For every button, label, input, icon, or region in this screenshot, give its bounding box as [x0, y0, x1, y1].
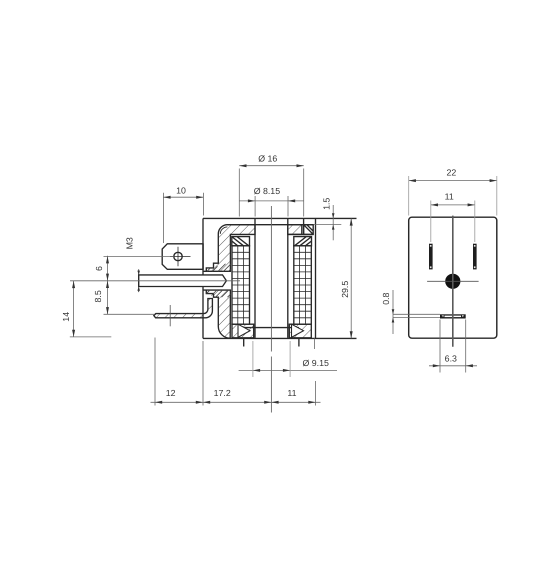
dim line 1.5: [332, 205, 334, 240]
terminal block: [162, 244, 203, 269]
arrows 6: [106, 256, 109, 263]
arrows 29.5: [350, 218, 353, 225]
svg-text:8.5: 8.5: [93, 290, 103, 302]
mounting bracket: [154, 299, 213, 318]
svg-text:14: 14: [61, 312, 71, 322]
dim line D8.15: [239, 200, 303, 202]
pin end cap line: [138, 269, 140, 292]
svg-text:M3: M3: [124, 237, 134, 249]
top washer line: [228, 224, 314, 226]
arrows 11 right view: [431, 203, 438, 206]
arrows bottom chain: [155, 401, 162, 404]
right view body: [409, 217, 497, 338]
tube bottom edge: [244, 327, 299, 329]
plunger tube bore wall left: [254, 218, 256, 338]
dim line 22: [409, 180, 497, 182]
inner corner arc detail: [220, 227, 227, 234]
pin end arrows: [137, 271, 140, 275]
centerline left view: [70, 206, 453, 413]
dim line 14: [73, 281, 75, 337]
bottom stub left: [243, 338, 245, 346]
left overmold wall with top band (hatched): [203, 225, 255, 272]
arrows 0.8: [392, 309, 395, 314]
screw hole M3: [170, 247, 191, 266]
bobbin flange right: [294, 237, 312, 246]
arrows 14: [72, 281, 75, 288]
leader 8.5 bottom: [104, 313, 155, 315]
svg-text:11: 11: [287, 388, 296, 398]
arrows 22: [409, 179, 416, 182]
dim line 11 right view: [431, 204, 475, 206]
dim line 6 and 8.5: [107, 256, 109, 314]
leader M3: [104, 256, 174, 258]
pin centerline: [70, 280, 240, 282]
boss hatch marks: [207, 264, 230, 272]
washer inner step line: [288, 233, 313, 235]
bottom chain dims 12 / 17.2 / 11: [151, 401, 321, 403]
bottom stub right: [298, 338, 300, 346]
right view center pin (filled circle): [445, 274, 460, 289]
winding grid horizontal lines: [232, 252, 311, 317]
arrows D16: [239, 164, 246, 167]
winding window right (grid): [294, 246, 312, 324]
svg-text:11: 11: [445, 191, 454, 201]
centerline right view: [452, 216, 454, 347]
svg-text:6: 6: [94, 266, 104, 271]
right view terminal slot right: [473, 244, 477, 270]
arrows 6.3: [433, 364, 440, 367]
arrows 1.5: [332, 213, 335, 218]
dim 0.8 leaders: [393, 313, 440, 315]
svg-text:Ø 16: Ø 16: [258, 154, 277, 164]
arrows D9.15: [253, 369, 260, 372]
winding window left (grid): [232, 246, 250, 324]
circle horizontal centerline: [427, 280, 479, 282]
svg-text:0.8: 0.8: [381, 292, 391, 304]
cup edge right: [303, 218, 305, 234]
svg-text:Ø 9.15: Ø 9.15: [302, 358, 329, 368]
body edge across terminal block: [202, 244, 204, 269]
dim line 29.5: [350, 218, 352, 338]
arrows D8.15: [248, 199, 255, 202]
arrows 10: [163, 196, 170, 199]
dim line D16: [239, 165, 303, 167]
left overmold wall lower part (hatched): [203, 290, 230, 338]
plunger pin: [139, 275, 227, 287]
bracket hole centerline: [169, 305, 171, 326]
bottom flange right (hatched with fold): [289, 324, 311, 338]
svg-text:Ø 8.15: Ø 8.15: [254, 186, 281, 196]
right view bottom slot: [440, 314, 466, 318]
top right band (hatched): [288, 225, 302, 235]
svg-text:6.3: 6.3: [445, 353, 457, 363]
svg-text:10: 10: [176, 185, 186, 195]
dim line D9.15: [239, 369, 337, 371]
dim 6.3: [429, 365, 477, 367]
svg-text:1.5: 1.5: [321, 198, 331, 210]
coil body outline: [203, 218, 357, 338]
plunger tube bore wall right: [287, 218, 289, 338]
bottom flange left (hatched with fold): [232, 324, 254, 338]
right view terminal slot left: [429, 244, 433, 270]
bobbin flange left: [232, 237, 250, 246]
right fold square: [304, 225, 314, 235]
dim line 10: [163, 196, 203, 198]
svg-text:22: 22: [447, 167, 457, 177]
dimensions: [70, 166, 497, 406]
svg-text:12: 12: [166, 388, 176, 398]
svg-text:17.2: 17.2: [214, 388, 231, 398]
arrows 8.5: [106, 281, 109, 288]
svg-text:29.5: 29.5: [340, 281, 350, 298]
